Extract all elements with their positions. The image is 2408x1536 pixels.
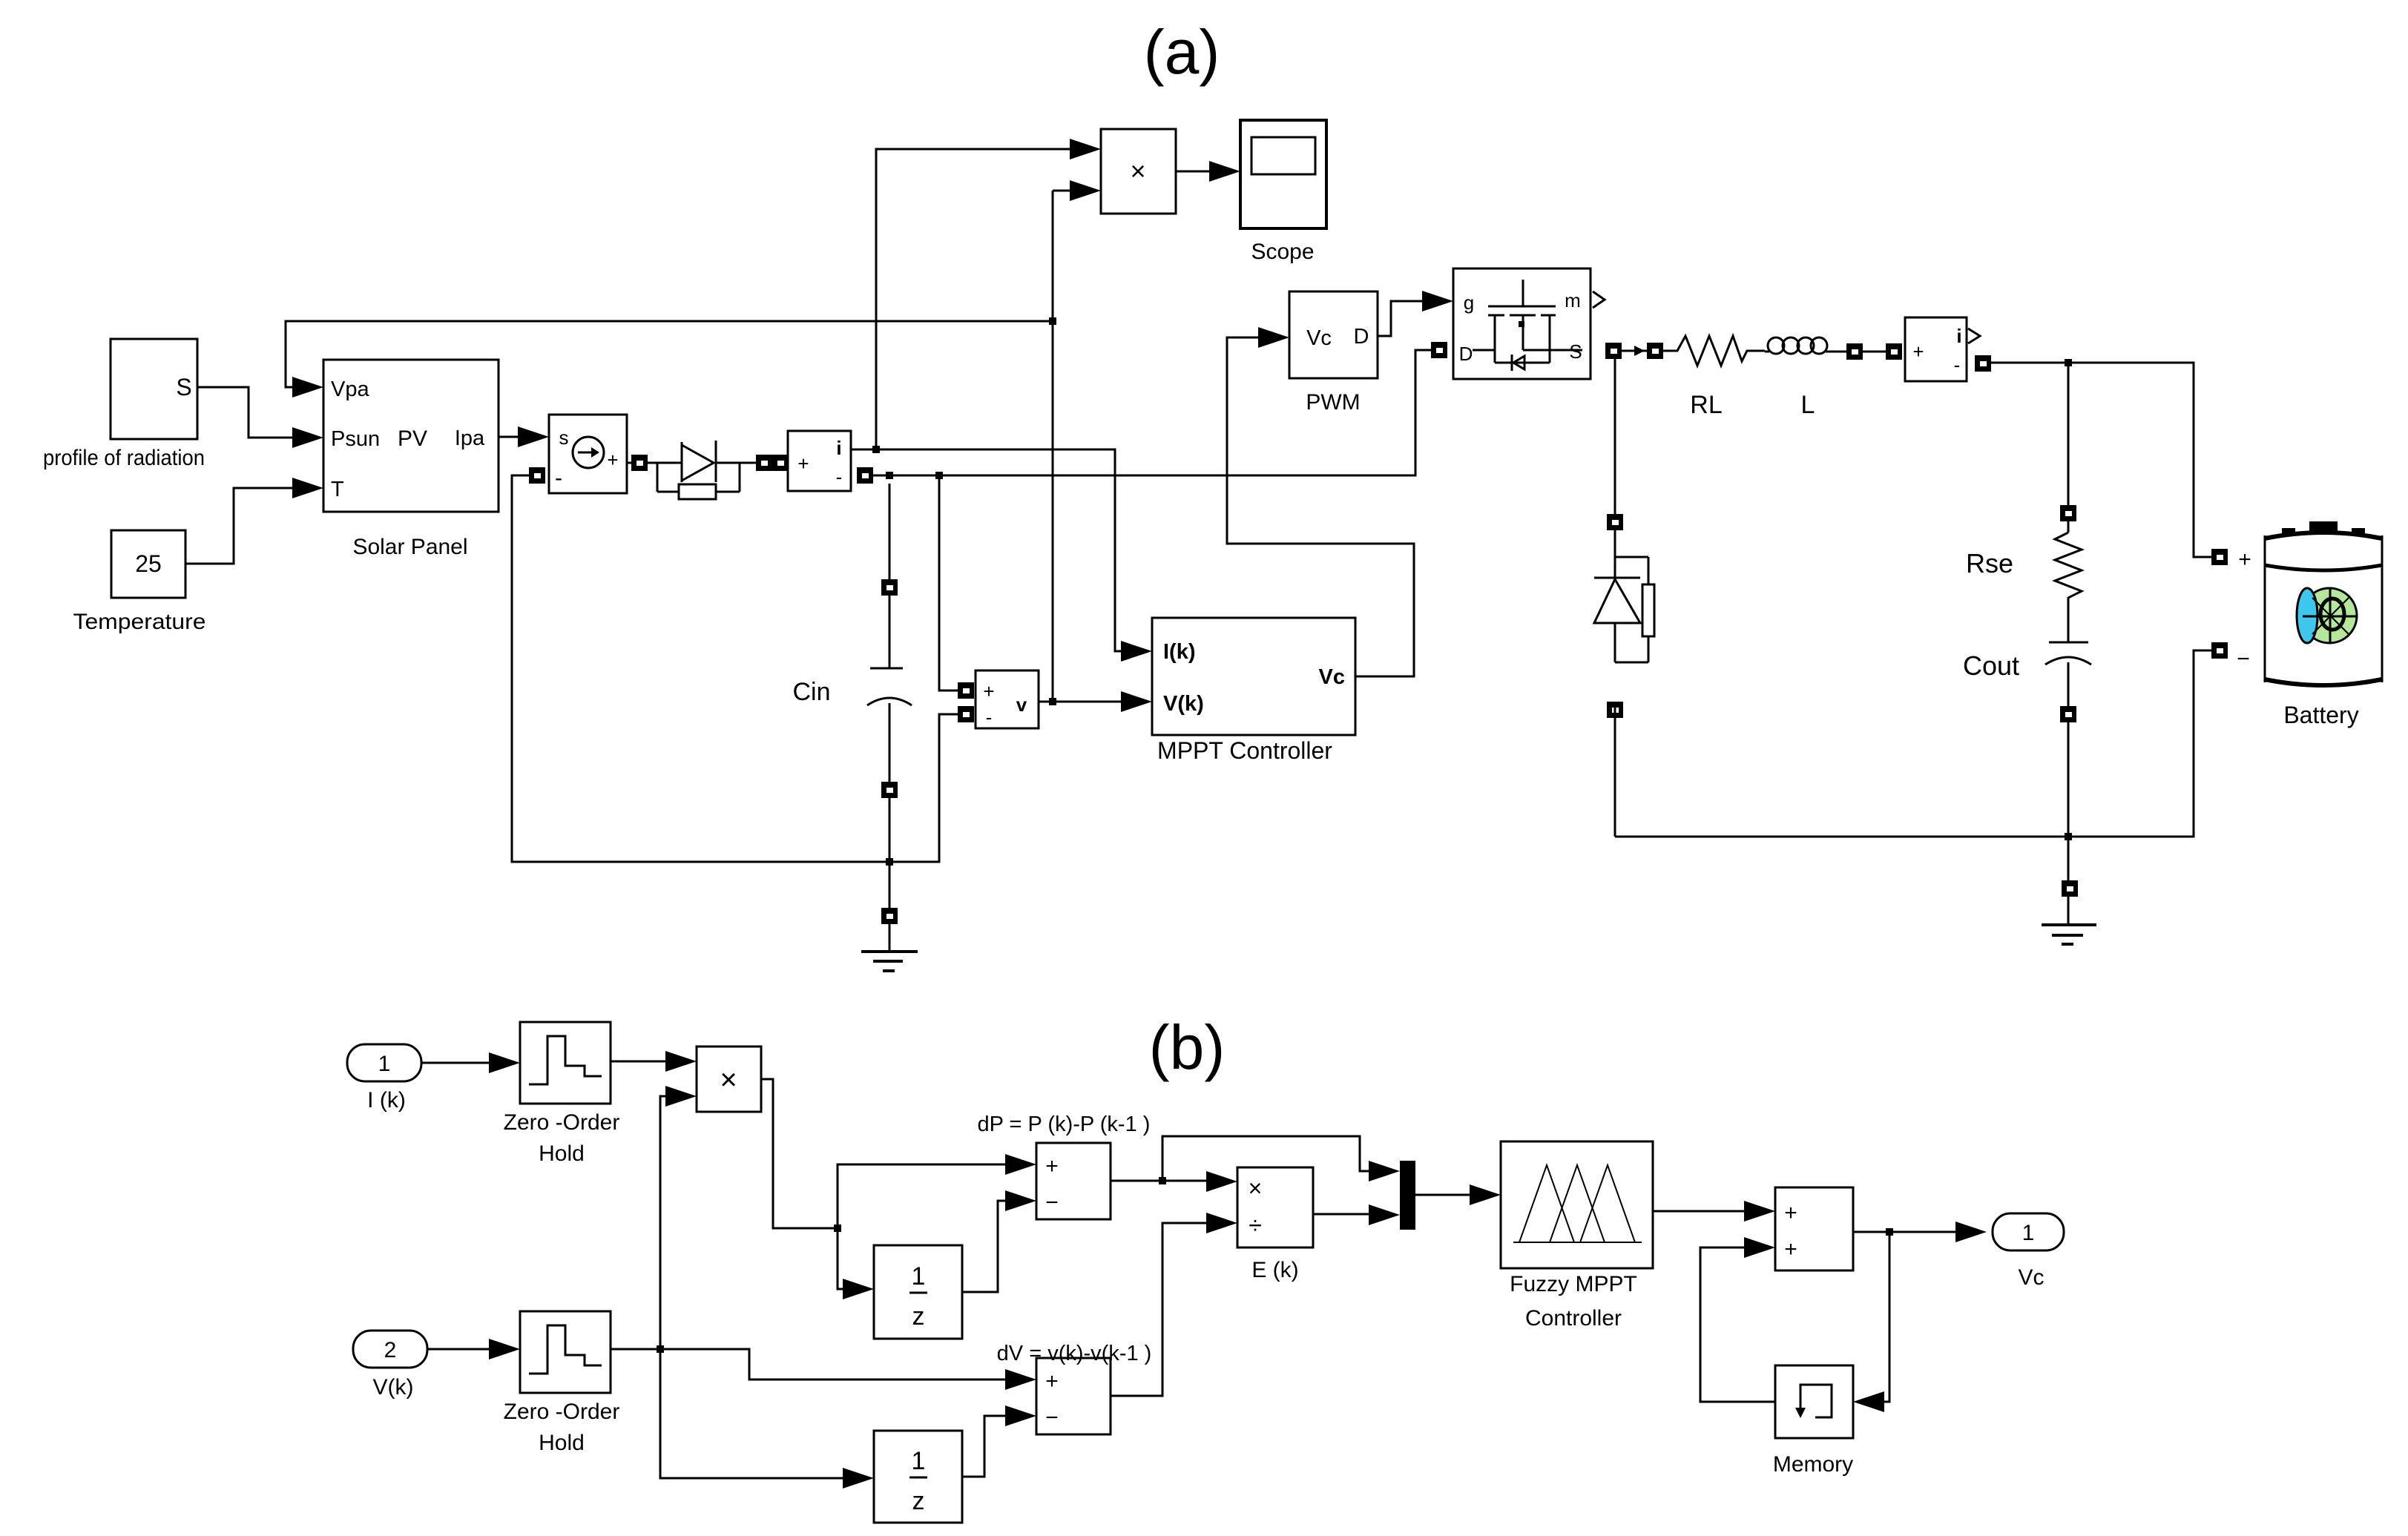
wire product to scope (1176, 171, 1209, 173)
svg-text:(a): (a) (1144, 17, 1220, 87)
svg-text:+: + (983, 680, 994, 702)
node Vc junction (1886, 1228, 1893, 1236)
svg-text:25: 25 (135, 550, 162, 577)
wire dV output to E(k) divide (1111, 1223, 1206, 1396)
svg-text:Zero -Order: Zero -Order (504, 1110, 620, 1135)
unit delay 1/z block 2 (874, 1431, 962, 1523)
product block P=VxI (1101, 129, 1176, 214)
svg-text:Controller: Controller (1525, 1306, 1622, 1331)
node v-signal junction (1049, 698, 1056, 705)
wire v output to V(k) (1039, 701, 1121, 703)
port node RL left (1647, 343, 1663, 359)
wire unit delay 1 to sum dP - (962, 1201, 1005, 1292)
wire to diode D1 anode (648, 462, 682, 464)
mux block (1400, 1161, 1415, 1230)
resistor R1 parallel with D1 (657, 463, 659, 492)
wire ZOH2 up to product (660, 1096, 665, 1349)
wire dP to mux input1 (1162, 1136, 1369, 1181)
svg-text:−: − (2237, 647, 2250, 671)
wire ZOH2 output bus (611, 1349, 1005, 1380)
wire E(k) to mux input2 (1313, 1213, 1369, 1216)
svg-text:I (k): I (k) (367, 1088, 406, 1113)
wire product output (761, 1079, 838, 1228)
svg-text:+: + (607, 449, 618, 471)
svg-text:dV = v(k)-v(k-1 ): dV = v(k)-v(k-1 ) (997, 1342, 1152, 1365)
wire inport1 to ZOH1 (421, 1062, 489, 1064)
sum block dV (1036, 1358, 1111, 1434)
svg-text:Fuzzy MPPT: Fuzzy MPPT (1510, 1272, 1637, 1296)
svg-text:i: i (836, 437, 841, 459)
battery block (2264, 535, 2266, 682)
wire S node to RL (1622, 350, 1647, 352)
wire to Rse (2067, 363, 2070, 505)
resistor R2 snubber (1615, 556, 1648, 558)
svg-text:Ipa: Ipa (455, 426, 485, 450)
node feedback junction (1049, 317, 1056, 325)
fuzzy MPPT controller block (1501, 1141, 1653, 1268)
wire i1 output to junction (851, 449, 876, 451)
divide block E(k) (1237, 1167, 1313, 1247)
subsystem MPPT Controller (1152, 618, 1355, 735)
svg-text:T: T (331, 478, 344, 501)
wire i-signal up to product (876, 149, 1070, 449)
outport 1 Vc (1993, 1213, 2064, 1250)
mosfet block (1453, 268, 1590, 379)
wire inport2 to ZOH2 (427, 1348, 489, 1351)
svg-text:E (k): E (k) (1251, 1258, 1298, 1282)
inport 2 (353, 1331, 427, 1368)
svg-text:D: D (1459, 343, 1473, 365)
svg-text:dP = P (k)-P (k-1 ): dP = P (k)-P (k-1 ) (978, 1113, 1151, 1136)
svg-text:PV: PV (398, 426, 427, 451)
wire diode D1 cathode out (716, 462, 756, 464)
mosfet icon (1522, 280, 1524, 306)
wire ZOH1 to product (611, 1061, 665, 1063)
svg-text:Battery: Battery (2283, 702, 2358, 728)
svg-text:−: − (1045, 1190, 1059, 1215)
node ZOH2 junction (657, 1345, 664, 1353)
svg-text:Hold: Hold (539, 1431, 585, 1455)
wire fuzzy to sum (1653, 1210, 1744, 1213)
svg-text:×: × (1130, 156, 1145, 186)
wire sum to outport Vc (1853, 1231, 1955, 1233)
wire current source + output (627, 462, 631, 464)
wire ZOH2 down to unit delay 2 (660, 1349, 843, 1478)
svg-text:D: D (1354, 325, 1369, 349)
svg-text:Zero -Order: Zero -Order (504, 1400, 620, 1424)
node Cout bottom junction (2065, 833, 2072, 840)
svg-text:Cout: Cout (1963, 650, 2019, 681)
zero-order hold 2 (520, 1311, 611, 1393)
svg-text:1: 1 (912, 1262, 926, 1291)
svg-text:I(k): I(k) (1163, 640, 1196, 664)
svg-text:Solar Panel: Solar Panel (352, 535, 467, 559)
inductor L (1768, 337, 1784, 354)
node Rse top junction (2065, 359, 2072, 366)
voltage measurement block v (976, 670, 1039, 728)
svg-text:-: - (986, 706, 993, 728)
diode D2 branch from S node (1614, 359, 1616, 514)
port node mosfet S (1605, 343, 1622, 359)
svg-text:V(k): V(k) (373, 1375, 414, 1400)
battery logo (2302, 588, 2357, 643)
svg-text:2: 2 (384, 1338, 397, 1362)
wire S to Psun (197, 387, 292, 438)
svg-text:g: g (1464, 291, 1474, 314)
svg-text:Vpa: Vpa (331, 378, 369, 401)
svg-text:MPPT Controller: MPPT Controller (1157, 737, 1332, 764)
unit delay 1/z block 1 (874, 1245, 962, 1339)
svg-text:S: S (1569, 340, 1582, 363)
svg-text:Hold: Hold (539, 1141, 585, 1166)
current measurement block i1 (788, 431, 851, 491)
svg-text:Scope: Scope (1251, 240, 1314, 264)
source block S (profile of radiation) (111, 339, 197, 439)
controlled current source block (549, 415, 627, 493)
wire memory to sum +2 (1700, 1247, 1775, 1402)
wire Vc to memory (1884, 1232, 1889, 1402)
wire i-signal to MPPT I(k) (876, 449, 1121, 651)
mosfet m output chevron (1593, 291, 1605, 308)
svg-text:×: × (720, 1064, 737, 1096)
node bottom bus junction (886, 858, 893, 866)
svg-text:+: + (1045, 1369, 1059, 1394)
wire MPPT Vc to PWM (1227, 337, 1414, 676)
wire P to unit delay 1 (838, 1228, 843, 1289)
svg-text:1: 1 (378, 1052, 391, 1076)
node dP junction (1159, 1177, 1166, 1184)
svg-text:Vc: Vc (1306, 326, 1332, 350)
svg-text:s: s (559, 426, 569, 449)
i2 output chevron (1968, 329, 1980, 343)
node P junction (834, 1224, 841, 1232)
current measurement block i2 (1905, 317, 1967, 381)
wire P to sum dP + (838, 1164, 1005, 1228)
sum block output (1775, 1187, 1853, 1270)
wire current source - return bus (529, 467, 545, 484)
resistor Rse (2055, 533, 2082, 602)
svg-text:+: + (2238, 547, 2251, 572)
memory block (1775, 1365, 1853, 1438)
svg-text:Cin: Cin (792, 678, 830, 706)
wire Ipa to current source s (499, 436, 518, 438)
port nodes into current measurement (756, 455, 772, 471)
constant block 25 (Temperature) (111, 530, 185, 598)
wire mux to fuzzy controller (1415, 1194, 1470, 1196)
svg-text:profile of radiation: profile of radiation (43, 446, 205, 470)
port node i2 minus (1975, 355, 1991, 372)
resistor RL (1663, 336, 1765, 366)
node v+ junction (935, 472, 943, 479)
wire Vpa feedback horizontal (286, 321, 1053, 387)
product block P(k) (697, 1046, 761, 1112)
ground G1 (861, 950, 918, 953)
port nodes voltage measurement (958, 682, 974, 699)
wire i2 minus to battery + (1991, 363, 2211, 557)
svg-text:1: 1 (912, 1447, 926, 1475)
ground G1 stub (889, 862, 891, 908)
svg-text:Vc: Vc (1319, 665, 1345, 689)
svg-text:Temperature: Temperature (73, 610, 206, 634)
wire bottom bus right (1615, 650, 2211, 837)
svg-text:PWM: PWM (1306, 390, 1360, 415)
port node battery - (2211, 642, 2228, 659)
diode D2 (1594, 577, 1640, 579)
svg-text:+: + (797, 452, 809, 475)
svg-text:Psun: Psun (331, 427, 380, 451)
svg-text:-: - (555, 466, 562, 490)
wire v-signal vertical to product and feedback (1052, 191, 1054, 702)
svg-text:(b): (b) (1149, 1012, 1226, 1082)
svg-text:Vc: Vc (2018, 1265, 2044, 1290)
zero-order hold 1 (520, 1022, 611, 1104)
svg-text:+: + (1912, 340, 1924, 363)
svg-text:+: + (1784, 1237, 1797, 1262)
svg-text:+: + (1045, 1154, 1059, 1179)
port node mosfet D (1431, 342, 1447, 358)
node Cin top junction (886, 472, 893, 479)
capacitor Cout (2067, 602, 2070, 642)
svg-text:-: - (836, 466, 843, 488)
sum block dP (1036, 1143, 1111, 1219)
diode D1 (681, 442, 683, 482)
node i-signal junction (872, 446, 880, 453)
inport 1 (347, 1044, 421, 1081)
svg-text:Rse: Rse (1966, 548, 2013, 579)
port node source plus (631, 455, 648, 471)
wire PWM D to mosfet g (1378, 301, 1422, 336)
svg-text:-: - (1954, 354, 1961, 376)
svg-text:×: × (1249, 1175, 1263, 1202)
svg-text:RL: RL (1690, 391, 1722, 419)
port node i1 minus (857, 467, 873, 484)
svg-text:÷: ÷ (1249, 1212, 1262, 1239)
svg-text:i: i (1956, 325, 1961, 347)
svg-text:S: S (176, 374, 191, 401)
svg-text:z: z (912, 1487, 925, 1515)
subsystem Solar Panel (323, 360, 499, 512)
port nodes L to measurement (1846, 343, 1863, 360)
svg-text:v: v (1016, 693, 1027, 716)
svg-text:Memory: Memory (1773, 1452, 1853, 1477)
wire panel + bus to mosfet D (873, 350, 1431, 475)
ground G2 stub (2067, 837, 2070, 880)
svg-text:−: − (1045, 1405, 1059, 1430)
scope block (1240, 120, 1326, 228)
wire unit delay 2 to sum dV - (962, 1416, 1005, 1477)
capacitor Cin (889, 484, 891, 579)
wire v+ sense (939, 475, 958, 690)
wire 25 to T (185, 488, 292, 564)
svg-text:+: + (1784, 1201, 1797, 1225)
svg-text:1: 1 (2022, 1221, 2035, 1245)
wire dP output to E(k) (1111, 1180, 1206, 1182)
ground G2 (2042, 923, 2096, 926)
svg-text:L: L (1801, 391, 1815, 419)
port node battery + (2211, 549, 2228, 565)
wire D2 to bottom bus (1607, 702, 1623, 718)
svg-text:m: m (1565, 289, 1581, 312)
svg-text:V(k): V(k) (1163, 692, 1204, 716)
svg-text:z: z (912, 1302, 925, 1331)
subsystem PWM (1289, 291, 1378, 378)
